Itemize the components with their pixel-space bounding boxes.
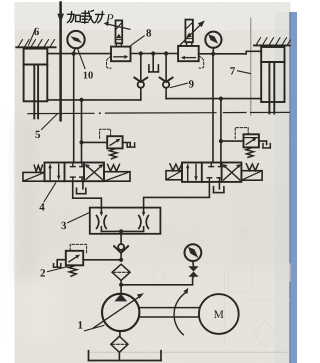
node: relief 2 tap <box>119 258 123 262</box>
svg-text:1: 1 <box>77 320 83 332</box>
relief 2: pilot dashed <box>70 244 86 253</box>
pressure gauge 10 <box>67 31 84 54</box>
valve 4: centre blocked ports <box>71 163 85 182</box>
node: gauge tap right <box>211 52 215 56</box>
node: right relief tap <box>219 139 223 143</box>
svg-text:M: M <box>214 309 224 321</box>
right directional valve (4/3) <box>182 163 241 182</box>
valve 4: bottom port to tank <box>77 181 86 194</box>
node <box>164 51 168 55</box>
relief 2: drain to tank <box>54 260 66 268</box>
relief left: pilot dashed <box>100 129 111 140</box>
relief valve 2 <box>66 251 83 265</box>
relief left: spring <box>110 149 118 159</box>
pressure gauge (bottom) <box>185 244 202 266</box>
relief right: pilot dashed <box>235 128 248 139</box>
relief left: drain to tank <box>123 143 135 148</box>
valve 4: left spring W <box>34 165 42 171</box>
wire: valve 4 port B drop <box>81 100 83 163</box>
node: branch to right valve <box>219 97 223 101</box>
relief right: drain to tank <box>259 141 270 148</box>
divider 3: internal join <box>101 227 143 232</box>
chinese text 加载力 (hand strokes) <box>67 10 104 23</box>
wire: rod-end line right <box>166 98 261 100</box>
label 9 leader <box>170 83 187 87</box>
wire: to relief valve 2 <box>83 259 121 261</box>
node <box>151 51 155 55</box>
right valve: right spring W <box>246 164 258 171</box>
faint ghost diamond <box>254 321 277 347</box>
label 2 leader <box>48 267 68 272</box>
pump 1 <box>94 293 144 331</box>
blue page-edge strip <box>290 12 297 363</box>
valve 4 (left directional 4/3) <box>45 163 105 182</box>
right valve: square1 arrows <box>186 164 198 181</box>
wire: drop from right gauge tap to right valve port <box>212 54 214 163</box>
wire: valve 8 to flow unit 2nd <box>131 53 179 55</box>
valve 4: right solenoid <box>104 172 130 182</box>
svg-text:5: 5 <box>35 129 41 141</box>
char 载 <box>81 10 93 23</box>
label 1 leader <box>85 325 104 330</box>
node: gauge 10 tap <box>72 52 76 56</box>
wire: right valve outlet to flow divider <box>144 182 210 208</box>
tank branch mid top <box>149 54 159 72</box>
flow unit 2nd: meter box <box>178 46 199 61</box>
label 10 leader <box>78 50 85 69</box>
right valve: X square <box>223 164 241 180</box>
suction filter <box>111 331 128 360</box>
svg-text:10: 10 <box>83 71 94 82</box>
wire: branch to shut-off gauge <box>121 277 193 285</box>
ceiling wall right <box>254 38 290 46</box>
wire: elbow to cylinder 7 cap port <box>246 51 261 54</box>
valve 4: X square <box>85 164 103 179</box>
svg-text:P: P <box>105 12 114 26</box>
label 4 leader <box>44 183 56 202</box>
node: gauge branch <box>119 283 123 287</box>
right valve: left solenoid <box>166 171 182 180</box>
right valve: bottom port to tank <box>214 182 224 193</box>
svg-text:2: 2 <box>40 268 46 280</box>
wire: drop from rod line to right valve port <box>220 99 222 163</box>
right valve: right solenoid <box>241 171 262 181</box>
ceiling wall left <box>16 40 55 48</box>
wire: filter to pump <box>120 280 122 294</box>
wire: to left relief valve <box>82 141 108 143</box>
valve 4: square1 arrows <box>48 164 60 181</box>
wire: rod-end line left <box>47 99 141 101</box>
label 5 leader <box>42 114 58 130</box>
flow unit 2nd: rotameter tube <box>185 20 193 46</box>
flow unit 8: adjust arrow <box>104 22 131 30</box>
right valve: centre blocked ports <box>207 163 223 182</box>
flow divider 3 <box>90 208 161 234</box>
divider 3: left inlet arrow <box>100 208 103 217</box>
shut-off valve (bowtie) <box>188 266 198 276</box>
svg-text:4: 4 <box>39 202 45 214</box>
filter (pressure line) <box>112 264 130 280</box>
char 力 <box>95 11 104 22</box>
rotation arrow <box>174 288 188 335</box>
wire: left cylinder cap port to valve 8 <box>47 53 111 55</box>
flow unit 2nd: drain (dashed) <box>199 56 204 68</box>
svg-text:8: 8 <box>146 28 152 40</box>
char 加 <box>67 12 80 23</box>
wire: to right gauge and cylinder 7 cap <box>199 53 247 55</box>
divider 3: right inlet arrow <box>142 208 145 217</box>
right valve: left spring W <box>170 164 182 171</box>
cylinder 7 (right test cylinder) <box>261 47 284 114</box>
tank <box>89 351 162 361</box>
wire: to right relief valve <box>221 140 244 142</box>
label 8 leader <box>131 36 144 45</box>
svg-text:6: 6 <box>34 26 40 38</box>
label 3 leader <box>68 213 90 223</box>
divider 3: left throttle <box>97 216 107 229</box>
label 7 leader <box>238 71 251 74</box>
svg-text:7: 7 <box>230 66 236 78</box>
svg-text:9: 9 <box>189 79 195 91</box>
wire: divider to check valve <box>120 231 122 244</box>
shaft pump-motor <box>139 308 198 317</box>
check valve (pump outlet) <box>114 244 128 260</box>
flow unit 8: drain (dashed) <box>106 57 111 69</box>
relief valve (left mid) <box>107 136 122 148</box>
load force arrow P <box>57 3 64 121</box>
node: divider outlet <box>119 229 123 233</box>
beam centre line <box>28 112 289 114</box>
relief 2: spring <box>69 265 77 276</box>
node <box>139 51 143 55</box>
valve 4: left solenoid <box>23 172 45 181</box>
divider 3: right throttle <box>139 216 149 229</box>
cylinder 6 (left loading cylinder) <box>24 49 48 119</box>
motor M <box>199 294 239 334</box>
check valve 9 (right) <box>160 54 173 99</box>
flow unit 8: rotameter tube <box>116 20 123 46</box>
valve 4: right spring W <box>108 164 120 171</box>
pressure gauge (right top) <box>205 32 221 54</box>
node: relief tap left <box>79 140 83 144</box>
flow unit 2nd: adjust arrow <box>179 20 205 46</box>
label 6 <box>29 29 36 45</box>
wire: valve 4 port A drop <box>73 54 75 163</box>
faint ghost line bottom <box>89 351 288 353</box>
node: branch to valve 4 port B <box>79 98 83 102</box>
svg-text:3: 3 <box>61 220 67 232</box>
check valve left (9 pair) <box>134 54 147 100</box>
flow unit 8: meter box <box>111 47 131 62</box>
wire: valve 4 outlet to flow divider <box>73 181 102 207</box>
relief valve (right) <box>244 134 259 147</box>
relief right: spring <box>246 148 254 158</box>
thin frame vertical near right cylinder <box>250 18 252 117</box>
